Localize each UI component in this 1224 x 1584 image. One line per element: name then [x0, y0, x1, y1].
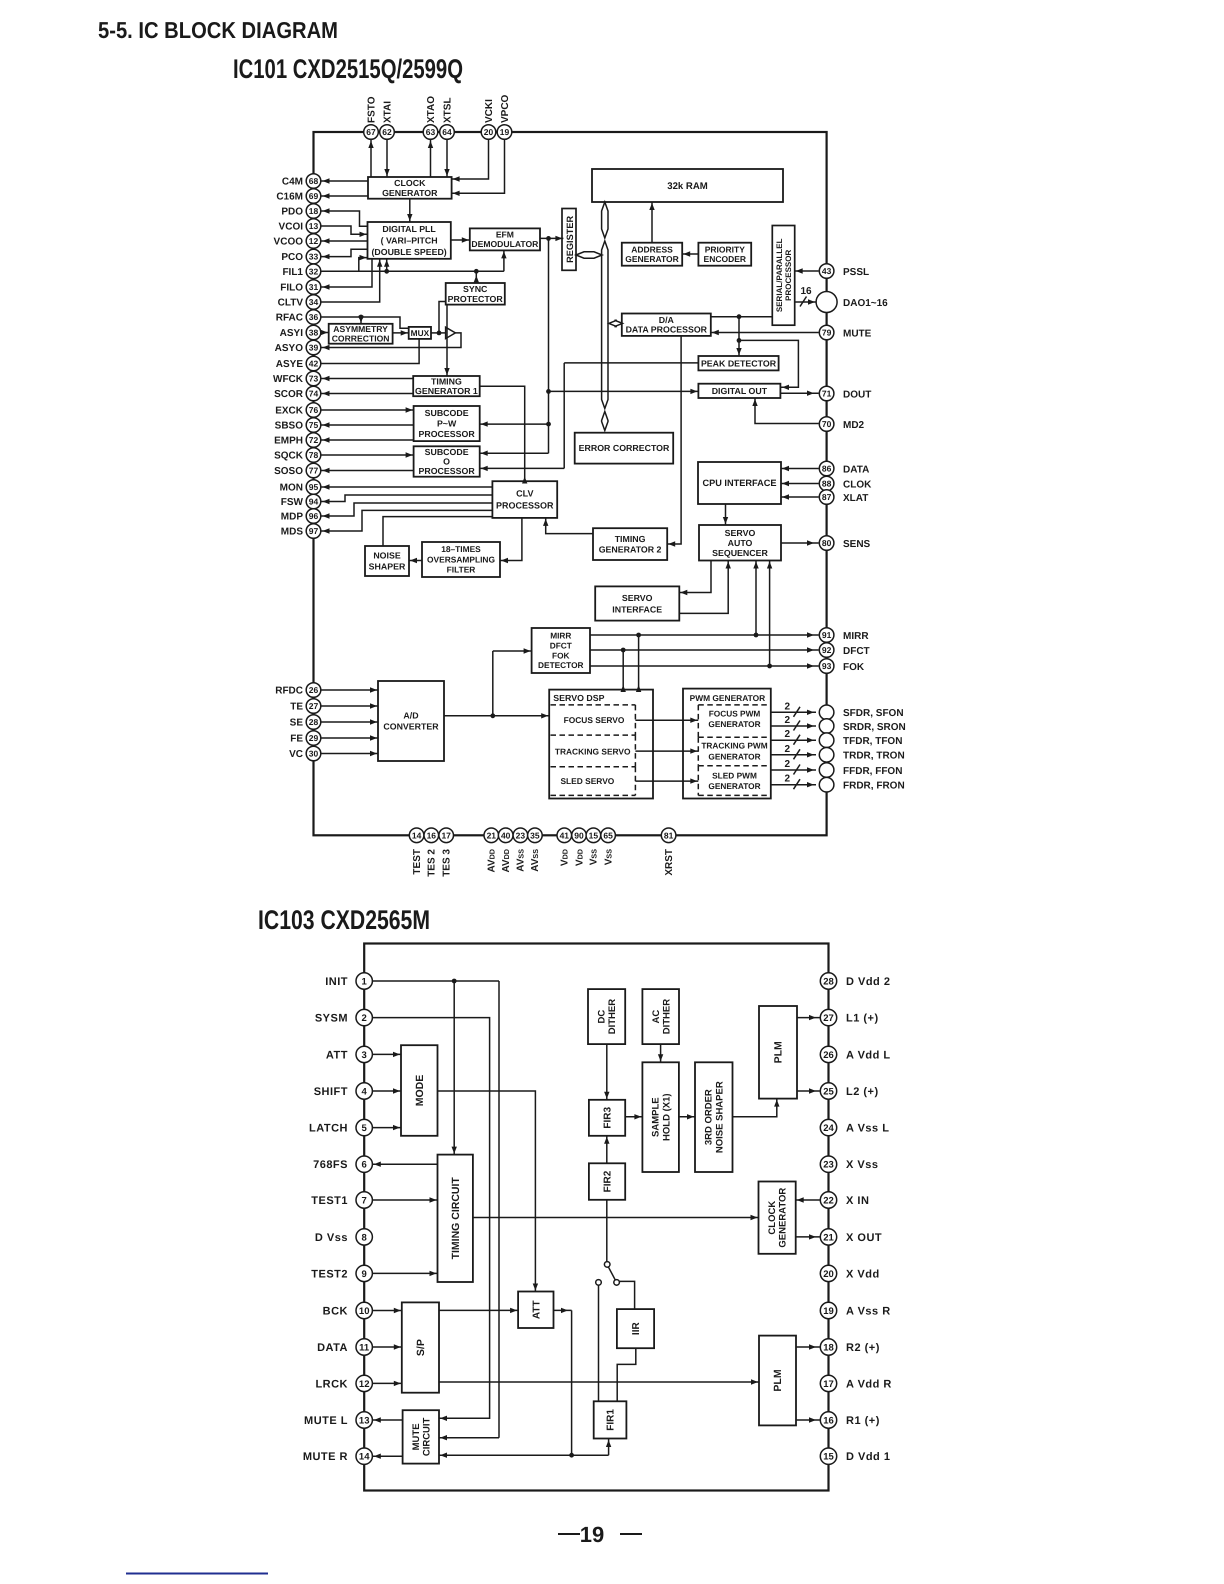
IC101 pin 76 EXCK (left)	[275, 403, 321, 418]
block ERROR CORRECTOR	[575, 433, 674, 464]
IC101 pin 80 SENS (right)	[819, 536, 870, 551]
svg-text:16: 16	[823, 1415, 834, 1426]
wire junction PLL-bottom branch	[384, 259, 389, 274]
svg-text:IC101 CXD2515Q/2599Q: IC101 CXD2515Q/2599Q	[233, 54, 463, 84]
svg-text:ATT: ATT	[531, 1300, 542, 1319]
block PWM GENERATOR (outer)	[683, 689, 771, 799]
svg-text:CLV: CLV	[516, 489, 533, 499]
IC103 pin 12 LRCK (left)	[315, 1375, 372, 1391]
svg-text:FRDR, FRON: FRDR, FRON	[843, 781, 905, 792]
IC103 pin 4 SHIFT (left)	[314, 1083, 373, 1099]
svg-text:ATT: ATT	[326, 1049, 348, 1061]
wire CLV to 18-TIMES FILTER	[500, 518, 522, 563]
svg-text:EMPH: EMPH	[274, 436, 303, 447]
wire SERVO INTERFACE to SERVO AUTO SEQ	[679, 561, 731, 614]
wire PLM right to pin 16 R1(+)	[796, 1417, 820, 1422]
svg-text:FFDR, FFON: FFDR, FFON	[843, 766, 902, 777]
svg-text:SE: SE	[290, 718, 304, 729]
wire TIMING CIRCUIT to CLOCK GENERATOR	[473, 1215, 759, 1220]
wire MIRR branch to SERVO AUTO SEQ	[753, 561, 758, 636]
svg-text:SAMPLE: SAMPLE	[650, 1097, 661, 1137]
wire pin 32 FIL1 to PLL	[359, 255, 368, 271]
svg-text:5: 5	[362, 1123, 368, 1134]
svg-text:10: 10	[359, 1306, 370, 1317]
svg-text:20: 20	[484, 127, 494, 137]
IC103 pin 15 D Vdd 1 (right)	[820, 1448, 890, 1464]
wire SERVO DSP to DFCT line	[621, 650, 626, 692]
svg-text:19: 19	[500, 127, 510, 137]
IC103 pin 21 X OUT (right)	[820, 1229, 882, 1245]
IC101 pin 18 PDO (left)	[281, 204, 320, 219]
svg-text:VSS: VSS	[603, 849, 614, 865]
svg-text:DIGITAL PLL: DIGITAL PLL	[382, 224, 436, 234]
svg-text:PRIORITY: PRIORITY	[705, 244, 745, 254]
block ATT	[518, 1292, 553, 1329]
svg-text:ERROR CORRECTOR: ERROR CORRECTOR	[579, 443, 670, 453]
block MIRR DFCT FOK DETECTOR	[532, 628, 590, 673]
wire CLOCK GEN to pin 21 X OUT	[796, 1234, 820, 1239]
block SUBCODE Q PROCESSOR	[414, 446, 480, 476]
svg-text:MIRR: MIRR	[843, 631, 869, 642]
svg-text:27: 27	[309, 701, 319, 711]
wire SERVO DSP to MIRR line	[636, 635, 641, 692]
IC101 pin 97 MDS (left)	[281, 524, 321, 539]
svg-text:(DOUBLE SPEED): (DOUBLE SPEED)	[371, 247, 446, 257]
svg-text:88: 88	[822, 479, 832, 489]
svg-text:L2 (+): L2 (+)	[846, 1086, 879, 1098]
wire CLV to pin 96 MDP	[322, 503, 493, 519]
svg-text:R1 (+): R1 (+)	[846, 1415, 880, 1427]
wire CLV to NOISE SHAPER	[383, 517, 492, 546]
svg-text:AVDD: AVDD	[501, 849, 512, 873]
wire CLOCK GEN to pin 67	[368, 140, 373, 177]
svg-text:CONVERTER: CONVERTER	[383, 722, 439, 732]
IC101 pin 15 VSS (bottom)	[586, 828, 601, 865]
IC103 pin 7 TEST1 (left)	[311, 1192, 372, 1208]
IC101 pin 21 AVDD (bottom)	[484, 828, 499, 873]
wire pin 10 BCK to S/P	[373, 1308, 402, 1313]
svg-text:ASYE: ASYE	[276, 359, 304, 370]
svg-text:7: 7	[362, 1195, 367, 1206]
svg-text:SHAPER: SHAPER	[369, 562, 406, 572]
svg-text:MUTE R: MUTE R	[303, 1451, 348, 1463]
svg-text:23: 23	[823, 1160, 834, 1171]
block IIR	[617, 1309, 654, 1348]
wire buffer to pin 39 ASYO	[322, 333, 462, 350]
block CPU INTERFACE	[698, 462, 781, 504]
svg-text:2: 2	[784, 729, 790, 740]
block CLV PROCESSOR	[492, 481, 557, 518]
svg-text:MUTE: MUTE	[843, 328, 872, 339]
buffer amplifier (triangle)	[446, 327, 456, 338]
IC103 pin 24 A Vss L (right)	[820, 1119, 889, 1135]
wire pin 3 ATT to MODE	[373, 1052, 401, 1057]
wire ADDRESS GEN to RAM	[649, 202, 654, 243]
svg-text:PROCESSOR: PROCESSOR	[418, 429, 475, 439]
svg-text:18: 18	[309, 206, 319, 216]
svg-text:26: 26	[823, 1050, 834, 1061]
block MODE	[401, 1045, 438, 1136]
wire FIR2 to switch pole	[606, 1200, 608, 1262]
svg-text:TIMING: TIMING	[615, 534, 646, 544]
svg-text:34: 34	[309, 297, 319, 307]
wire MUX to buffer	[431, 331, 446, 336]
wire ASYMMETRY CORRECTION to MUX	[393, 330, 409, 335]
svg-text:90: 90	[574, 830, 584, 840]
svg-text:LATCH: LATCH	[309, 1123, 348, 1135]
title IC101 CXD2515Q/2599Q	[233, 54, 463, 84]
svg-text:77: 77	[309, 466, 319, 476]
svg-text:SERIAL/PARALLEL: SERIAL/PARALLEL	[775, 238, 784, 312]
block SERVO DSP (outer)	[549, 690, 653, 799]
IC101 pin 65 VSS (bottom)	[601, 828, 616, 865]
svg-text:35: 35	[530, 830, 540, 840]
wire SLED SERVO to SLED PWM GEN	[635, 778, 698, 783]
IC101 pin 90 VDD (bottom)	[572, 828, 587, 866]
block D/A DATA PROCESSOR	[622, 314, 711, 336]
IC101 pin 81 XRST (bottom)	[661, 828, 676, 876]
block DC DITHER	[588, 989, 625, 1044]
wire TIMING CIRCUIT to pin 6 768FS	[373, 1162, 438, 1167]
svg-text:A Vss L: A Vss L	[846, 1123, 889, 1135]
block SUBCODE P~W PROCESSOR	[414, 406, 480, 441]
svg-text:VPCO: VPCO	[500, 94, 511, 123]
IC101 pin 72 EMPH (left)	[274, 433, 321, 448]
wire DFCT line to pin 92	[590, 647, 819, 652]
wire pin 20 VCKI to CLOCK GEN	[452, 140, 489, 182]
IC101 pin 95 MON (left)	[280, 480, 321, 495]
svg-text:XTAI: XTAI	[382, 101, 393, 123]
svg-text:74: 74	[309, 389, 319, 399]
svg-text:38: 38	[309, 328, 319, 338]
svg-text:PWM GENERATOR: PWM GENERATOR	[690, 693, 766, 703]
svg-text:30: 30	[309, 749, 319, 759]
wire LRCK line to PLM right-channel	[439, 1379, 759, 1384]
wire branch to DIGITAL OUT (right)	[739, 340, 798, 390]
wire PLL to pin 12 VCOO	[322, 238, 368, 243]
IC101 pin 68 C4M (left)	[282, 174, 321, 189]
svg-text:25: 25	[823, 1086, 834, 1097]
svg-text:SFDR, SFON: SFDR, SFON	[843, 708, 904, 719]
block TIMING GENERATOR 2	[593, 528, 667, 560]
IC101 pin 91 MIRR (right)	[819, 628, 869, 643]
svg-text:AUTO: AUTO	[728, 538, 753, 548]
page number 19	[558, 1522, 642, 1547]
svg-text:TEST2: TEST2	[311, 1268, 348, 1280]
IC101 pin 23 AVSS (bottom)	[513, 828, 528, 872]
wire CLV to pin 97 MDS	[322, 510, 493, 533]
svg-text:SERVO: SERVO	[725, 528, 756, 538]
IC101 pin 43 PSSL (right)	[819, 264, 869, 279]
svg-text:TEST: TEST	[412, 849, 423, 875]
svg-text:SBSO: SBSO	[275, 421, 304, 432]
wire pin 11 DATA to S/P	[373, 1344, 402, 1349]
IC103 pin 6 768FS (left)	[313, 1156, 372, 1172]
IC103 pin 25 L2 (+) (right)	[820, 1083, 878, 1099]
svg-text:14: 14	[412, 830, 422, 840]
svg-text:SEQUENCER: SEQUENCER	[712, 548, 768, 558]
svg-text:MON: MON	[280, 483, 303, 494]
wire MIRR line to pin 91	[590, 632, 819, 637]
svg-text:IC103 CXD2565M: IC103 CXD2565M	[258, 905, 430, 935]
svg-text:70: 70	[822, 419, 832, 429]
wire SUBCODE Q to pin 77 SOSO	[322, 468, 414, 473]
svg-text:FSW: FSW	[281, 497, 304, 508]
IC101 pin 70 MD2 (right)	[819, 417, 864, 432]
IC101 pin 14 TEST (bottom)	[409, 828, 424, 875]
svg-text:CIRCUIT: CIRCUIT	[421, 1417, 432, 1456]
wire PWM output pair FFDR	[771, 759, 816, 775]
wire SERVO AUTO SEQ to pin 80 SENS	[781, 540, 819, 545]
svg-text:SHIFT: SHIFT	[314, 1086, 348, 1098]
svg-text:FIL1: FIL1	[282, 267, 303, 278]
wire TIMING GEN1 to pin 74 SCOR	[322, 391, 414, 396]
svg-text:SCOR: SCOR	[274, 389, 304, 400]
svg-text:29: 29	[309, 733, 319, 743]
IC103 pin 14 MUTE R (left)	[303, 1448, 373, 1464]
blue underline mark	[126, 1573, 268, 1575]
wire PWM output pair SFDR	[771, 701, 816, 717]
wire PLM right to pin 18 R2(+)	[796, 1344, 820, 1349]
svg-text:TFDR, TFON: TFDR, TFON	[843, 736, 902, 747]
IC101 pin 42 ASYE (left)	[276, 356, 321, 371]
svg-text:R2 (+): R2 (+)	[846, 1342, 880, 1354]
wire SAMPLE HOLD to 3RD ORDER NS	[679, 1114, 695, 1119]
svg-text:FOK: FOK	[843, 662, 865, 673]
svg-text:33: 33	[309, 252, 319, 262]
IC101 pin DAO1~16 (right)	[816, 292, 888, 313]
wire pin 86 DATA to CPU INTERFACE	[781, 466, 819, 471]
svg-text:17: 17	[823, 1379, 834, 1390]
svg-text:TRACKING PWM: TRACKING PWM	[701, 740, 767, 750]
svg-text:MUTE: MUTE	[411, 1423, 422, 1450]
wire CLV to pin 94 FSW	[322, 495, 493, 504]
svg-text:26: 26	[309, 685, 319, 695]
svg-text:A Vdd R: A Vdd R	[846, 1378, 892, 1390]
wire MUTE pin 79 to D/A PROCESSOR	[711, 330, 819, 335]
svg-text:ASYO: ASYO	[275, 343, 304, 354]
svg-text:INTERFACE: INTERFACE	[612, 604, 662, 614]
bus lens main vertical bus	[602, 241, 608, 409]
wire C4M 68 to CLOCK GEN	[322, 178, 369, 183]
wire PWM output pair SRDR	[771, 715, 816, 731]
svg-text:PLM: PLM	[772, 1369, 784, 1391]
wire MODE to ATT block	[438, 1091, 539, 1292]
wire PLM to pin 25 L2(+)	[797, 1088, 820, 1093]
wire CLOCK GEN to DIGITAL PLL	[407, 199, 412, 222]
svg-text:VCOO: VCOO	[274, 237, 304, 248]
wire pin 1 INIT distribution	[373, 979, 499, 1441]
block TIMING GENERATOR 1	[413, 376, 480, 396]
block DIGITAL PLL	[368, 222, 451, 259]
wire pin 12 LRCK to S/P	[373, 1381, 402, 1386]
svg-text:91: 91	[822, 630, 832, 640]
IC101 pin 92 DFCT (right)	[819, 643, 869, 658]
IC101 pin 78 SQCK (left)	[274, 448, 321, 463]
wire RFAC branch to ASYMMETRY CORRECTION	[358, 316, 363, 324]
svg-text:INIT: INIT	[325, 976, 348, 988]
switch S1 (dither path selector)	[596, 1262, 620, 1286]
block SYNC PROTECTOR	[446, 283, 505, 305]
svg-text:GENERATOR: GENERATOR	[778, 1188, 789, 1248]
svg-text:DATA PROCESSOR: DATA PROCESSOR	[626, 325, 708, 335]
svg-text:GENERATOR 2: GENERATOR 2	[599, 544, 662, 554]
wire FOK branch to SERVO AUTO SEQ	[767, 561, 772, 667]
svg-text:DAO1~16: DAO1~16	[843, 298, 888, 309]
svg-text:DFCT: DFCT	[843, 646, 870, 657]
svg-text:PSSL: PSSL	[843, 267, 869, 278]
svg-text:13: 13	[359, 1415, 370, 1426]
block 3RD ORDER NOISE SHAPER	[695, 1062, 733, 1172]
block FOCUS SERVO (dashed)	[551, 705, 636, 735]
IC101 pin 27 TE (left)	[290, 699, 321, 714]
IC101 pin 88 CLOK (right)	[819, 476, 872, 491]
svg-text:32: 32	[309, 266, 319, 276]
svg-text:36: 36	[309, 312, 319, 322]
wire PRIORITY ENCODER to ADDRESS GEN	[682, 251, 698, 256]
svg-text:D/A: D/A	[659, 315, 675, 325]
svg-text:CLOCK: CLOCK	[767, 1201, 778, 1235]
IC103 pin 17 A Vdd R (right)	[820, 1375, 892, 1391]
IC101 pin 32 FIL1 (left)	[282, 264, 320, 279]
svg-text:VCOI: VCOI	[279, 222, 304, 233]
title IC103 CXD2565M	[258, 905, 430, 935]
svg-text:69: 69	[309, 191, 319, 201]
wire EFM DEMOD to REGISTER	[540, 236, 563, 241]
svg-text:13: 13	[309, 221, 319, 231]
svg-text:SERVO DSP: SERVO DSP	[553, 693, 604, 703]
svg-text:6: 6	[362, 1160, 367, 1171]
IC101 pin 29 FE (left)	[290, 731, 321, 746]
bus lens RAM to register-bus	[602, 202, 608, 238]
IC101 pin 36 RFAC (left)	[276, 310, 321, 325]
block FIR2	[589, 1163, 625, 1200]
wire A/D CONVERTER to SERVO DSP	[444, 713, 549, 718]
svg-text:19: 19	[580, 1522, 604, 1547]
svg-text:DOUT: DOUT	[843, 389, 871, 400]
IC101 pin 67 FSTO (top)	[364, 96, 379, 139]
svg-text:MIRR: MIRR	[550, 631, 571, 641]
svg-text:DATA: DATA	[317, 1342, 348, 1354]
svg-text:TRDR, TRON: TRDR, TRON	[843, 751, 905, 762]
IC103 pin 13 MUTE L (left)	[304, 1412, 372, 1428]
wire pin 13 VCOI to PLL	[322, 226, 368, 237]
svg-text:MODE: MODE	[414, 1075, 426, 1107]
IC101 pin 96 MDP (left)	[281, 509, 321, 524]
svg-text:MDS: MDS	[281, 527, 304, 538]
svg-text:XTSL: XTSL	[442, 97, 453, 123]
svg-text:DETECTOR: DETECTOR	[538, 660, 583, 670]
svg-text:9: 9	[362, 1269, 367, 1280]
IC103 boundary box	[364, 944, 828, 1491]
svg-text:X Vss: X Vss	[846, 1159, 878, 1171]
block PLM (right channel)	[759, 1336, 796, 1426]
svg-text:OVERSAMPLING: OVERSAMPLING	[427, 554, 495, 564]
IC101 pin 34 CLTV (left)	[278, 295, 321, 310]
svg-text:MUTE L: MUTE L	[304, 1415, 348, 1427]
wire ATT to switch column	[554, 1308, 572, 1456]
svg-text:8: 8	[362, 1232, 367, 1243]
bus lens into ERROR CORRECTOR	[602, 412, 608, 431]
IC101 pin 94 FSW (left)	[281, 494, 321, 509]
wire SERIAL/PARALLEL to pin 43 PSSL	[795, 268, 819, 273]
svg-text:ADDRESS: ADDRESS	[631, 244, 673, 254]
svg-text:TES 2: TES 2	[427, 849, 438, 877]
block FOCUS PWM GENERATOR (dashed)	[698, 705, 770, 737]
svg-text:PEAK DETECTOR: PEAK DETECTOR	[701, 358, 777, 368]
svg-text:DITHER: DITHER	[661, 999, 672, 1035]
wire pin 36 RFAC to MUX	[322, 315, 409, 329]
svg-text:12: 12	[309, 236, 319, 246]
svg-text:DC: DC	[597, 1010, 608, 1024]
svg-text:XTAO: XTAO	[426, 96, 437, 123]
svg-text:68: 68	[309, 176, 319, 186]
wire DC DITHER to FIR3	[604, 1044, 609, 1100]
IC101 pin 79 MUTE (right)	[819, 325, 871, 340]
wire PWM output pair TRDR	[771, 744, 816, 760]
IC101 pin 19 VPCO (top)	[497, 94, 512, 139]
wire SYNC PROTECTOR to TIMING GEN 1	[444, 305, 449, 376]
svg-text:86: 86	[822, 464, 832, 474]
svg-text:PROCESSOR: PROCESSOR	[418, 466, 475, 476]
IC101 pin 62 XTAI (top)	[380, 101, 395, 140]
svg-text:22: 22	[823, 1195, 834, 1206]
svg-text:FIR2: FIR2	[603, 1170, 614, 1192]
svg-text:TRACKING SERVO: TRACKING SERVO	[555, 747, 631, 757]
svg-text:VDD: VDD	[560, 849, 571, 866]
IC103 pin 3 ATT (left)	[326, 1046, 372, 1062]
block AC DITHER	[642, 989, 679, 1044]
IC101 pin 16 TES 2 (bottom)	[424, 828, 439, 877]
IC101 pin 35 AVSS (bottom)	[528, 828, 543, 872]
wire PLL to EFM DEMODULATOR	[451, 237, 470, 242]
svg-text:2: 2	[784, 759, 790, 770]
IC101 pin 26 RFDC (left)	[275, 683, 321, 698]
svg-text:AC: AC	[651, 1010, 662, 1024]
IC101 pin 64 XTSL (top)	[440, 97, 455, 139]
wire branch down to PEAK DETECTOR	[736, 317, 741, 356]
svg-text:D Vdd 1: D Vdd 1	[846, 1451, 890, 1463]
svg-text:80: 80	[822, 538, 832, 548]
IC101 pin TFDR, TFON (right)	[819, 733, 902, 748]
IC103 pin 19 A Vss R (right)	[820, 1302, 890, 1318]
IC101 pin 86 DATA (right)	[819, 461, 869, 476]
IC103 pin 1 INIT (left)	[325, 973, 372, 989]
svg-text:FOCUS SERVO: FOCUS SERVO	[564, 715, 625, 725]
svg-text:FILO: FILO	[280, 283, 303, 294]
svg-text:2: 2	[784, 774, 790, 785]
svg-text:11: 11	[359, 1342, 370, 1353]
svg-text:AVDD: AVDD	[487, 849, 498, 873]
svg-text:ASYI: ASYI	[280, 328, 304, 339]
wire CPU INTERFACE to SERVO AUTO SEQUENCER	[723, 504, 728, 525]
svg-text:73: 73	[309, 374, 319, 384]
wire pin 9 TEST2 to TIMING CIRCUIT	[373, 1271, 438, 1276]
block NOISE SHAPER	[365, 546, 409, 576]
IC101 pin 30 VC (left)	[289, 746, 321, 761]
wire C16M 69 to CLOCK GEN	[322, 193, 369, 198]
wire DIGITAL OUT to pin 71 DOUT	[780, 391, 818, 396]
wire TIMING GEN1 to CLV PROCESSOR	[480, 386, 528, 483]
wire PLL to pin 33 PCO	[322, 249, 368, 259]
block SERVO AUTO SEQUENCER	[699, 525, 781, 561]
svg-text:GENERATOR: GENERATOR	[708, 781, 760, 791]
svg-text:PLM: PLM	[773, 1041, 785, 1063]
svg-text:63: 63	[426, 127, 436, 137]
wire pin 19 VPCO to CLOCK GEN	[452, 140, 505, 196]
block MUTE CIRCUIT	[403, 1410, 439, 1463]
svg-text:XRST: XRST	[664, 849, 675, 876]
